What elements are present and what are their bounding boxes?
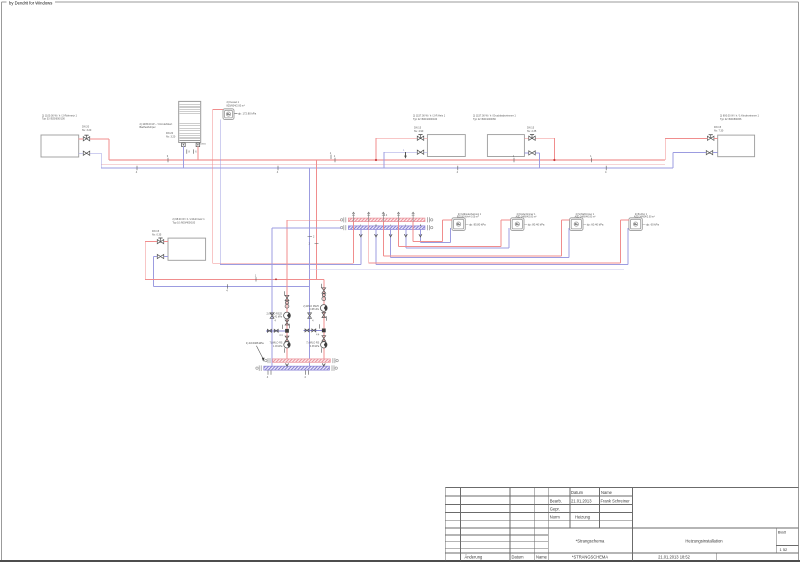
- towel radiator: [140, 101, 201, 142]
- svg-text:2: 2: [313, 235, 315, 238]
- valve R4 return: [706, 151, 713, 155]
- title block: [445, 488, 798, 561]
- svg-text:ASD 34/604/0.00 m²: ASD 34/604/0.00 m²: [575, 215, 596, 218]
- svg-text:Norm: Norm: [550, 514, 561, 519]
- svg-text:4: 4: [277, 170, 279, 174]
- pipe P4 supply: [369, 220, 629, 263]
- svg-text:0.38 kPa: 0.38 kPa: [310, 345, 320, 348]
- svg-text:ASD 34/604/2.00 m²: ASD 34/604/2.00 m²: [516, 215, 537, 218]
- manifold return bar: [340, 225, 433, 230]
- svg-text:Heizungsinstallation: Heizungsinstallation: [685, 539, 723, 544]
- radiator R1: [41, 115, 79, 157]
- svg-text:4 4: 4 4: [384, 215, 388, 217]
- svg-text:Bearb.: Bearb.: [550, 498, 562, 503]
- svg-text:1: 1: [513, 154, 515, 158]
- manifold taps supply: [354, 222, 414, 264]
- svg-text:8: 8: [189, 151, 191, 154]
- svg-text:6: 6: [195, 151, 197, 154]
- bottom return bar: [256, 365, 338, 371]
- faint circulation pipe: [101, 163, 665, 165]
- svg-text:4 4: 4 4: [279, 335, 283, 337]
- riser supply: [317, 151, 332, 279]
- pump unit P1: [452, 214, 486, 231]
- svg-text:1: 1: [255, 273, 257, 277]
- svg-text:1 52: 1 52: [780, 547, 789, 552]
- svg-text:4: 4: [275, 320, 277, 323]
- manifold supply bar: [340, 217, 433, 222]
- svg-text:Badheizkörper: Badheizkörper: [140, 126, 156, 129]
- circuit pump lower: [270, 342, 291, 353]
- valve R2 supply: [414, 127, 424, 141]
- towel radiator supply fitting: [196, 143, 206, 147]
- svg-text:4: 4: [267, 375, 269, 379]
- circuit check valve: [322, 313, 326, 321]
- pipe R1 return: [79, 153, 102, 168]
- pipe R2 return: [384, 149, 428, 168]
- svg-text:Blatt: Blatt: [778, 530, 787, 535]
- svg-text:DN15: DN15: [200, 144, 206, 146]
- radiator R4: [718, 115, 760, 157]
- faint secondary return pipe: [310, 268, 624, 270]
- svg-text:Typ 33 /925/600/100: Typ 33 /925/600/100: [42, 118, 65, 121]
- svg-text:1.03 kPa: 1.03 kPa: [273, 345, 283, 348]
- circuit check valve: [285, 320, 289, 328]
- pipe towel return: [183, 147, 190, 168]
- svg-text:*STRANGSCHEMA: *STRANGSCHEMA: [572, 555, 608, 560]
- flow marks return main: [136, 166, 607, 174]
- svg-text:dp: 85.80 kPa: dp: 85.80 kPa: [469, 222, 486, 226]
- riser flow marks: [307, 235, 318, 245]
- circuit pump upper: [266, 312, 290, 319]
- radiator R2: [413, 115, 465, 157]
- expansion vessel connection: [246, 341, 265, 361]
- pipe R5 supply: [145, 242, 168, 280]
- svg-text:1: 1: [334, 154, 336, 158]
- boiler unit: [223, 101, 257, 119]
- svg-text:Nv: 7.30: Nv: 7.30: [714, 129, 724, 132]
- svg-text:4: 4: [312, 320, 314, 323]
- svg-text:Frank Schreiner: Frank Schreiner: [601, 498, 631, 503]
- svg-text:Typ 10 /600/400/100: Typ 10 /600/400/100: [172, 221, 195, 224]
- valve R3 return: [529, 151, 536, 155]
- pipe towel supply: [194, 147, 198, 160]
- svg-text:952.00 W/m² 0.00 m²: 952.00 W/m² 0.00 m²: [457, 215, 479, 218]
- svg-text:Nv: 0.35: Nv: 0.35: [152, 234, 162, 237]
- svg-text:Nv: 2.35: Nv: 2.35: [527, 130, 537, 133]
- svg-text:4: 4: [457, 170, 459, 174]
- manifold taps return: [359, 224, 422, 264]
- svg-text:4: 4: [605, 170, 607, 174]
- mixing bridge: [304, 324, 326, 332]
- pipe boiler supply drop: [213, 110, 354, 264]
- pipe R4 supply: [665, 138, 718, 160]
- svg-text:1: 1: [590, 154, 592, 158]
- circuit A return riser: [272, 228, 341, 366]
- riser return: [309, 168, 311, 366]
- valve R5 return: [157, 254, 164, 258]
- svg-text:Typ 22 /600/800/66: Typ 22 /600/800/66: [720, 118, 742, 121]
- pipe P3 supply: [383, 220, 569, 256]
- bottom supply bar: [265, 358, 339, 363]
- svg-text:Datum: Datum: [571, 490, 584, 495]
- svg-text:4: 4: [226, 289, 228, 293]
- watermark text: [9, 0, 52, 5]
- svg-text:Nv: 3.20: Nv: 3.20: [82, 129, 92, 132]
- pipe P4 return: [376, 228, 628, 264]
- pipe R3 return: [524, 153, 539, 168]
- circuit valve top: [285, 291, 289, 308]
- pipe R1 supply: [79, 139, 109, 160]
- svg-text:dp: 60.40 kPa: dp: 60.40 kPa: [587, 222, 604, 226]
- pipe P2 return: [406, 228, 509, 248]
- svg-text:dp: 60 kPa: dp: 60 kPa: [646, 222, 659, 226]
- return main pipe: [101, 167, 673, 169]
- pipe R4 return: [673, 153, 718, 168]
- svg-text:dp: 80.40 kPa: dp: 80.40 kPa: [528, 222, 545, 226]
- supply main pipe: [109, 159, 665, 161]
- svg-text:Name: Name: [601, 490, 613, 495]
- bottom bar flow marks: [267, 363, 326, 378]
- pipe P2 supply: [399, 220, 511, 247]
- pump unit P4: [629, 213, 660, 231]
- valve R1 return: [83, 151, 90, 155]
- svg-text:825/604/2.00 m²: 825/604/2.00 m²: [227, 104, 245, 107]
- pipe P1 return: [420, 228, 450, 242]
- svg-text:Gepr.: Gepr.: [550, 506, 560, 511]
- svg-text:0.38 kPa: 0.38 kPa: [309, 308, 319, 311]
- svg-text:21.01.2013: 21.01.2013: [571, 498, 592, 503]
- valve R3 supply: [527, 127, 537, 141]
- return riser valve: [270, 313, 276, 323]
- svg-text:*Strangschema: *Strangschema: [576, 539, 605, 544]
- svg-text:Typ 22 /600/1000/66: Typ 22 /600/1000/66: [473, 118, 496, 121]
- level2 supply main: [145, 273, 324, 291]
- pipe P1 supply: [413, 220, 452, 242]
- svg-text:by Dendrit for Windows: by Dendrit for Windows: [9, 0, 52, 5]
- valve R5 supply: [152, 230, 164, 244]
- pump unit P2: [511, 213, 545, 231]
- svg-text:ASD 34/604/2.00 m²: ASD 34/604/2.00 m²: [634, 215, 655, 218]
- level2 return main: [154, 284, 310, 292]
- manifold arrows up: [352, 212, 414, 221]
- towel radiator return fitting: [182, 143, 186, 147]
- svg-text:dp: 172.80 kPa: dp: 172.80 kPa: [238, 112, 257, 116]
- return riser valve: [308, 313, 314, 323]
- circuit B supply riser: [323, 291, 325, 359]
- radiator R3: [473, 115, 524, 157]
- title block texts: [465, 490, 789, 560]
- svg-text:4: 4: [304, 375, 306, 379]
- circuit pump upper: [303, 305, 327, 312]
- svg-text:Name: Name: [536, 555, 548, 560]
- flow marks supply main: [167, 154, 592, 162]
- pipe R5 return: [154, 257, 168, 287]
- pipe R2 supply: [375, 138, 428, 161]
- svg-text:4: 4: [136, 170, 138, 174]
- valve R4 supply: [707, 126, 723, 140]
- pipe boiler return drop: [220, 119, 361, 264]
- svg-text:4 4: 4 4: [316, 334, 320, 336]
- circuit valve lower: [279, 335, 289, 342]
- svg-text:Datum: Datum: [512, 555, 525, 560]
- valve R1 supply: [82, 126, 92, 141]
- svg-text:21.01.2013 18:52: 21.01.2013 18:52: [658, 555, 691, 560]
- radiator R5: [168, 218, 206, 260]
- svg-text:Nv: 4.90: Nv: 4.90: [414, 130, 424, 133]
- svg-text:Änderung: Änderung: [465, 555, 483, 560]
- valve R2 return: [417, 150, 424, 154]
- svg-text:1: 1: [330, 151, 332, 155]
- circuit pump lower: [306, 342, 327, 353]
- pump unit P3: [570, 213, 604, 231]
- pipe P3 return: [391, 228, 569, 257]
- svg-text:2: 2: [309, 243, 311, 246]
- svg-text:Typ 22 /600/1000/100: Typ 22 /600/1000/100: [413, 118, 438, 121]
- svg-text:1) 10.0326 kPa: 1) 10.0326 kPa: [246, 341, 264, 345]
- circuit valve top: [321, 284, 325, 301]
- svg-text:Heizung: Heizung: [575, 514, 591, 519]
- svg-text:Nv: 3.20: Nv: 3.20: [166, 135, 176, 138]
- svg-text:3: 3: [167, 154, 169, 158]
- mixing bridge: [266, 325, 289, 333]
- pipe R3 supply: [524, 138, 555, 161]
- circuit valve lower: [316, 334, 326, 341]
- circuit A supply riser: [287, 220, 341, 359]
